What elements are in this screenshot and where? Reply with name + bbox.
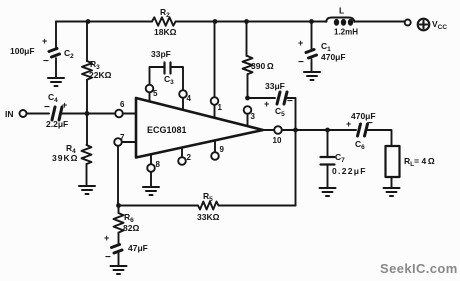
svg-text:L: L (339, 6, 344, 16)
wire pin 1 to rail (214, 22, 216, 98)
svg-text:IN: IN (5, 109, 14, 119)
svg-text:6: 6 (120, 100, 125, 109)
capacitor C1 470uF (298, 38, 346, 68)
svg-text:100μF: 100μF (10, 46, 35, 56)
pin 8 (147, 155, 160, 172)
svg-text:C5: C5 (275, 106, 285, 118)
node junction on rail at 390 ohm (244, 19, 249, 24)
node output junction C7 (325, 128, 330, 133)
wire C4 to pin 6 (62, 113, 115, 115)
svg-text:33pF: 33pF (151, 49, 171, 59)
ground (47uF) (111, 266, 127, 274)
svg-text:SeekIC.com: SeekIC.com (380, 261, 458, 276)
terminal Vcc (405, 19, 448, 31)
resistor R5 (197, 191, 220, 222)
wire R6 to 47uF cap (118, 233, 120, 245)
pin 6 (115, 100, 136, 117)
capacitor C3 33pF with bracket wires (150, 49, 184, 90)
terminal IN (5, 109, 27, 119)
svg-text:+: + (42, 36, 47, 46)
wire C1 to ground (311, 63, 313, 72)
wire C1 branch from rail (311, 22, 313, 48)
svg-text:470μF: 470μF (321, 52, 346, 62)
resistor R3 (82, 59, 112, 80)
capacitor C5 33uF (264, 81, 293, 118)
wire IN to C4 (27, 113, 50, 115)
svg-text:33KΩ: 33KΩ (197, 212, 220, 222)
pin 4 (179, 90, 191, 110)
wire pin10 to output node (282, 129, 328, 131)
svg-text:47μF: 47μF (128, 243, 148, 253)
svg-text:ECG1081: ECG1081 (147, 125, 187, 135)
pin 7 (114, 133, 136, 146)
wire C2 to ground (55, 62, 57, 78)
svg-text:C7: C7 (335, 152, 345, 164)
svg-text:2.2μF: 2.2μF (46, 119, 68, 129)
wire C6 to load (368, 130, 392, 146)
pin 9 (211, 141, 224, 160)
wire R4 to ground (86, 164, 88, 186)
svg-text:−: − (105, 252, 111, 263)
svg-text:+: + (298, 38, 303, 48)
node junction on rail at R3 (86, 19, 91, 24)
wire feedback horizontal right segment (219, 205, 296, 207)
wire rail to Vcc terminal (355, 21, 405, 23)
wire pin 7 down to feedback node (117, 146, 119, 206)
svg-text:RL= 4 Ω: RL= 4 Ω (404, 156, 435, 168)
node output junction C5/feedback (293, 128, 298, 133)
pin 5 (146, 85, 158, 102)
pin 3 (244, 106, 256, 126)
ground (pin 8) (143, 187, 159, 195)
pin 2 (178, 148, 191, 165)
capacitor C4 2.2uF (44, 92, 68, 129)
svg-text:10: 10 (273, 136, 282, 145)
svg-text:+: + (104, 233, 109, 243)
svg-text:C3: C3 (164, 74, 174, 86)
wire C5 to output node (287, 98, 296, 130)
wire R3 to input node (86, 80, 88, 114)
node junction on rail at pin1 (213, 19, 218, 24)
resistor RL load (386, 146, 435, 177)
wire pin 8 to ground (150, 172, 152, 187)
svg-text:9: 9 (220, 145, 225, 154)
capacitor C7 0.22uF (321, 152, 367, 176)
wire C7 to ground (327, 165, 329, 189)
pin 10 output (263, 126, 282, 145)
svg-text:4: 4 (187, 94, 192, 103)
ground (R4) (79, 186, 95, 194)
capacitor C6 470uF (346, 111, 376, 151)
wire R3 from rail (86, 22, 88, 62)
svg-text:C2: C2 (64, 48, 74, 60)
wire 47uF to ground (118, 253, 120, 266)
svg-text:1: 1 (218, 103, 223, 112)
capacitor C2 100uF (10, 36, 74, 67)
capacitor 47uF (104, 233, 148, 263)
wire feedback horizontal left segment (119, 205, 199, 207)
ground (C1) (304, 72, 320, 80)
svg-text:2: 2 (187, 153, 192, 162)
svg-text:22KΩ: 22KΩ (89, 70, 112, 80)
svg-text:39KΩ: 39KΩ (52, 153, 78, 163)
node input bias junction (85, 111, 90, 116)
svg-text:−: − (44, 102, 50, 113)
ground (RL) (384, 188, 400, 196)
node junction pin3 / C5 (245, 96, 250, 101)
svg-text:82Ω: 82Ω (123, 223, 139, 233)
pin 1 (211, 97, 223, 117)
svg-text:−: − (43, 56, 49, 67)
resistor R6 (114, 212, 140, 233)
inductor L 1.2mH (326, 6, 358, 37)
wire output node to C6 (328, 129, 357, 131)
wire top supply rail middle segment (176, 21, 327, 23)
svg-text:470μF: 470μF (351, 111, 376, 121)
op-amp U1 ECG1081 (136, 98, 263, 158)
svg-text:5: 5 (153, 89, 158, 98)
wire top supply rail left segment (56, 21, 152, 23)
svg-text:−: − (298, 57, 304, 68)
node junction on rail at C1 (309, 19, 314, 24)
svg-text:C6: C6 (355, 139, 365, 151)
svg-text:+: + (62, 100, 67, 110)
wire C7 branch (327, 130, 329, 156)
ground (C2) (48, 78, 64, 86)
wire RL to ground (391, 177, 393, 188)
svg-text:3: 3 (251, 112, 256, 121)
wire input node to R4 (86, 114, 88, 146)
svg-text:18KΩ: 18KΩ (154, 27, 177, 37)
ground (C7) (320, 188, 336, 196)
svg-text:R5: R5 (203, 191, 213, 203)
svg-text:+: + (264, 99, 269, 109)
svg-text:1.2mH: 1.2mH (334, 28, 358, 37)
resistor R4 (52, 143, 92, 164)
svg-text:8: 8 (156, 160, 161, 169)
resistor R2 (152, 7, 177, 37)
wire pin3 node to C5 (248, 97, 276, 99)
node feedback junction (116, 203, 121, 208)
resistor 390 ohm (from rail to pin 3) (243, 22, 274, 99)
svg-text:390 Ω: 390 Ω (251, 61, 274, 71)
wire feedback vertical from output node (295, 130, 297, 206)
svg-text:VCC: VCC (432, 19, 447, 31)
svg-text:33μF: 33μF (265, 81, 285, 91)
wire C2 branch from rail (55, 22, 57, 47)
svg-text:7: 7 (120, 133, 125, 142)
svg-text:0.22μF: 0.22μF (332, 166, 367, 176)
wire feedback node to R6 (118, 206, 120, 214)
